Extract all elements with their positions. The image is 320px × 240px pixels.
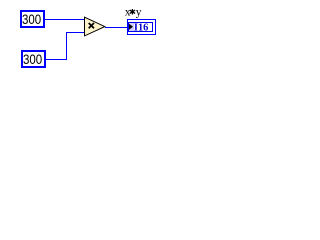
svg-text:300: 300 bbox=[23, 51, 42, 67]
svg-text:300: 300 bbox=[22, 11, 41, 27]
svg-text:x: x bbox=[125, 6, 131, 18]
svg-text:I16: I16 bbox=[134, 21, 149, 33]
svg-text:y: y bbox=[136, 6, 142, 18]
